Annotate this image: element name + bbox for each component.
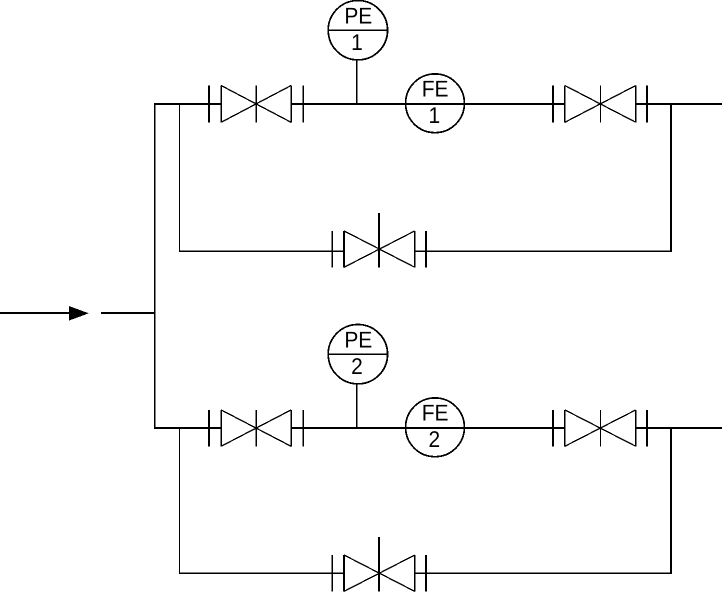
valve V6 run2 bypass gate valve [332,537,426,592]
instrument bubble PE1 [328,1,388,60]
wire: run2 pipe segment B [291,427,565,429]
wire: bypass1 left drop [179,103,181,252]
svg-text:FE: FE [422,76,449,102]
instrument bubble PE2 [328,325,388,384]
wire: bypass2 line left segment [179,572,344,574]
svg-text:FE: FE [422,400,449,426]
label FE2 text [422,400,449,452]
wire: PE2 instrument tail [356,384,358,428]
wire: bypass2 left drop [179,427,181,574]
svg-text:1: 1 [428,102,440,128]
svg-text:2: 2 [428,426,440,452]
wire: run1 pipe segment A [154,103,221,105]
valve V2 run1 outlet gate valve [553,86,647,123]
valve V1 run1 inlet gate valve [209,86,303,123]
label FE1 text [422,76,449,128]
wire: run2 pipe segment C [636,427,722,429]
wire: bypass2 right riser [670,427,672,574]
valve V5 run2 outlet gate valve [553,410,647,446]
svg-text:PE: PE [344,3,372,29]
valve V4 run2 inlet gate valve [209,410,303,446]
wire: bypass1 line right segment [415,250,672,252]
wire: run1 pipe segment C [636,103,722,105]
instrument bubble FE2 [406,398,465,457]
svg-text:2: 2 [351,353,363,379]
wire: run2 pipe segment A [154,427,221,429]
label PE1 text [344,3,372,55]
svg-text:PE: PE [344,327,372,353]
wire: PE1 instrument tail [356,60,358,104]
wire: header vertical [154,103,156,429]
svg-text:1: 1 [351,29,363,55]
label PE2 text [344,327,372,379]
wire: bypass1 line left segment [179,250,344,252]
wire: run1 pipe segment B [291,103,565,105]
wire: inlet stub to header [101,312,155,314]
instrument bubble FE1 [406,74,465,133]
arrowhead: flow direction [69,306,89,320]
wire: bypass2 line right segment [415,572,672,574]
valve V3 run1 bypass gate valve [332,213,426,267]
wire: bypass1 right riser [670,103,672,252]
wire: inlet line [0,312,69,314]
